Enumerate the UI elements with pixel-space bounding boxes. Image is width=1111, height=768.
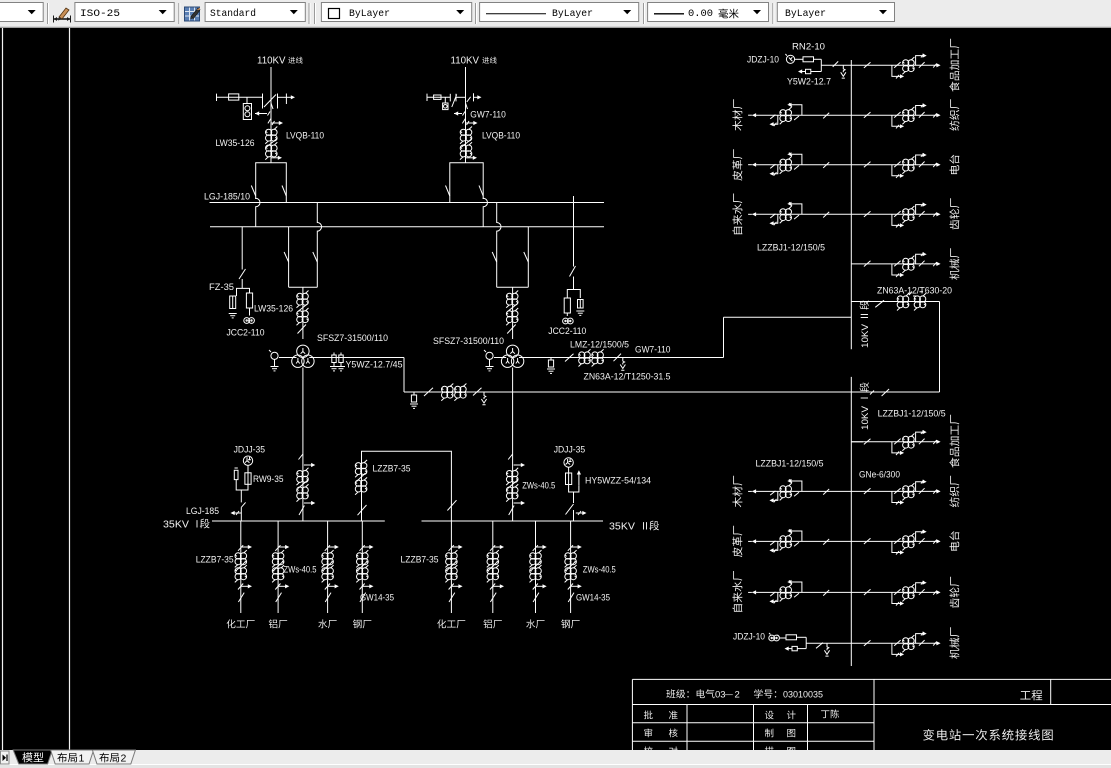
10kV feeder 纺织厂 (section I): breaker + CT <box>851 480 940 505</box>
title block table <box>632 678 1111 680</box>
svg-text:2: 2 <box>121 753 127 765</box>
35kV feeder 铝厂: breaker + CT LZZB7-35 <box>272 521 289 613</box>
disconnector line 1 <box>262 94 264 109</box>
10kV feeder 电台 (section I): breaker + CT <box>851 530 940 555</box>
svg-text:GW14-35: GW14-35 <box>360 593 394 603</box>
CT LVQB-110 line 2 <box>460 127 472 144</box>
feeder name labels upper right <box>949 81 959 91</box>
bus 110kV LGJ-185/10 W1 <box>210 202 605 204</box>
wire jumper leg line2 to bus W2 <box>483 198 487 227</box>
svg-text:ZWs-40.5: ZWs-40.5 <box>284 565 317 575</box>
10kV feeder 皮革厂 (section I): breaker + CT <box>748 529 851 553</box>
model/layout tab bar <box>0 750 1111 768</box>
wire jumper leg line1 to bus W2 <box>256 198 260 227</box>
svg-text:RN2-10: RN2-10 <box>792 42 825 52</box>
PT branch: PT JCC2-110 line 2 side + arrester + ground <box>573 196 575 267</box>
svg-text:ZN63A-12/T1250-31.5: ZN63A-12/T1250-31.5 <box>584 372 671 382</box>
wire to bus + disconnector + ground arrow <box>821 64 851 66</box>
disconnector bracket + CT, transformer T2 110kV side <box>497 203 501 288</box>
svg-text:03: 03 <box>715 690 726 701</box>
10kV feeder 木材厂 (section I): breaker + CT <box>748 479 851 503</box>
neutral arrester + ground T1 <box>279 357 297 359</box>
disconnector GW7-110 line 2 <box>449 94 451 102</box>
svg-text:ByLayer: ByLayer <box>552 8 593 20</box>
svg-text:HY5WZZ-54/134: HY5WZZ-54/134 <box>585 476 651 486</box>
35kV feeder name labels <box>227 619 236 628</box>
35kV feeder 钢厂 II: breaker + CT LZZB7-35 <box>565 521 582 613</box>
svg-text:LW35-126: LW35-126 <box>254 304 293 314</box>
svg-text:0.00: 0.00 <box>688 8 713 20</box>
application toolbar <box>0 0 1111 28</box>
10kV feeder 机械厂 (section I): breaker + CT <box>851 632 940 657</box>
35kV feeder 化工厂 II: breaker + CT LZZB7-35 <box>445 521 462 613</box>
bus 10KV II段 <box>850 60 852 349</box>
PT branch: fuse FZ-35 + LW35-126 + PT JCC2-110 <box>241 227 243 270</box>
CT LMZ-12/1500/5 <box>579 349 591 366</box>
bus 35KV I段 <box>212 520 385 522</box>
svg-text:LW35-126: LW35-126 <box>216 138 255 148</box>
bus 35KV II段 <box>422 520 604 522</box>
10kV feeder 齿轮厂: breaker + CT <box>851 203 940 228</box>
svg-text:ZWs-40.5: ZWs-40.5 <box>522 481 555 491</box>
10kV feeder 齿轮厂 (section I): breaker + CT <box>851 581 940 606</box>
svg-text:LZZBJ1-12/150/5: LZZBJ1-12/150/5 <box>756 459 824 469</box>
svg-text:JDZJ-10: JDZJ-10 <box>733 632 765 642</box>
wire 10kV feeder from T1 to bus 10KV I <box>404 391 851 393</box>
svg-text:110KV: 110KV <box>257 56 286 67</box>
35kV feeder 水厂 II: breaker + CT LZZB7-35 <box>530 521 547 613</box>
svg-text:ByLayer: ByLayer <box>349 8 390 20</box>
10kV feeder 纺织厂: breaker + CT <box>851 103 940 128</box>
10kV feeder 电台: breaker + CT <box>851 153 940 178</box>
35kV feeder 化工厂: breaker + CT LZZB7-35 <box>235 521 252 613</box>
wire T1 10kV branch <box>309 357 404 359</box>
svg-text:Y5WZ-12.7/45: Y5WZ-12.7/45 <box>346 360 403 370</box>
svg-text:SFSZ7-31500/110: SFSZ7-31500/110 <box>433 336 504 346</box>
svg-text:GW7-110: GW7-110 <box>635 345 671 355</box>
svg-text:GW7-110: GW7-110 <box>470 110 506 120</box>
svg-text:JCC2-110: JCC2-110 <box>548 326 586 336</box>
svg-text:1: 1 <box>79 753 85 765</box>
svg-text:ISO-25: ISO-25 <box>80 8 120 20</box>
svg-text:10KV: 10KV <box>860 323 871 348</box>
svg-text:110KV: 110KV <box>451 56 480 67</box>
neutral arrester + ground T2 <box>494 357 506 359</box>
svg-text:LZZB7-35: LZZB7-35 <box>196 555 234 565</box>
feeder name labels lower right <box>949 457 959 467</box>
35kV feeder 铝厂 II: breaker + CT LZZB7-35 <box>487 521 504 613</box>
10kV feeder 木材厂: breaker + CT LZZBJ1-12/150/5 <box>748 103 851 127</box>
svg-text:SFSZ7-31500/110: SFSZ7-31500/110 <box>317 333 388 343</box>
svg-text:35KV: 35KV <box>609 522 635 533</box>
CT pair on 10kV feeder ZN63A-12/T1250-31.5 <box>441 384 453 401</box>
transformer T1 SFSZ7-31500/110 <box>292 345 314 367</box>
35kV bus tie with CT LZZB7-35 <box>362 451 452 521</box>
feeder name labels lower left <box>732 497 742 507</box>
disconnector bracket + CT, transformer T1 110kV side <box>288 227 290 287</box>
svg-text:LZZB7-35: LZZB7-35 <box>373 464 411 474</box>
arrester + ground on 10kV feeder <box>413 392 415 395</box>
svg-text:JDZJ-10: JDZJ-10 <box>747 55 779 65</box>
svg-text:JDJJ-35: JDJJ-35 <box>234 445 266 455</box>
arrester + ground on T2 10kV branch <box>550 358 552 361</box>
10kV feeder 自来水厂: breaker + CT LZZBJ1-12/150/5 <box>748 202 851 226</box>
10kV feeder 机械厂: breaker + CT <box>851 252 940 277</box>
svg-text:LGJ-185/10: LGJ-185/10 <box>204 192 250 202</box>
svg-text:LMZ-12/1500/5: LMZ-12/1500/5 <box>570 340 629 350</box>
svg-text:2: 2 <box>735 690 740 701</box>
10kV feeder 食品加工厂 (section I): breaker + CT <box>851 430 940 455</box>
svg-text:GW14-35: GW14-35 <box>576 593 610 603</box>
svg-text:LZZB7-35: LZZB7-35 <box>401 555 439 565</box>
35kV feeder 水厂: breaker + CT LZZB7-35 <box>322 521 339 613</box>
svg-text:10KV: 10KV <box>860 405 871 430</box>
svg-text:RW9-35: RW9-35 <box>253 474 284 484</box>
wire incoming line 1 vertical <box>270 67 272 163</box>
35kV winding drops T1/T2 with CT ZWs-40.5 <box>302 368 304 522</box>
fuse + PT tap line 2 <box>426 94 428 101</box>
CT LVQB-110 line 1 <box>265 127 277 144</box>
feeder name labels upper left <box>732 121 742 131</box>
svg-text:GNe-6/300: GNe-6/300 <box>859 470 900 480</box>
svg-text:35KV: 35KV <box>163 520 189 531</box>
35kV feeder 钢厂: breaker + CT LZZB7-35 <box>356 521 373 613</box>
svg-text:ByLayer: ByLayer <box>785 8 826 20</box>
svg-text:Standard: Standard <box>210 8 256 20</box>
svg-text:Y5W2-12.7: Y5W2-12.7 <box>787 77 831 87</box>
10kV feeder 食品加工厂: breaker + CT <box>851 54 940 79</box>
svg-text:LGJ-185: LGJ-185 <box>186 506 219 516</box>
wire T2 10kV branch GW7-110 to bus 10KV II <box>519 357 724 359</box>
bus 10KV I段 <box>850 377 852 666</box>
svg-text:ZN63A-12/T630-20: ZN63A-12/T630-20 <box>877 286 952 296</box>
svg-text:LZZBJ1-12/150/5: LZZBJ1-12/150/5 <box>757 243 825 253</box>
bus 110kV LGJ-185/10 W2 <box>210 226 604 228</box>
transformer T2 SFSZ7-31500/110 <box>501 345 523 367</box>
svg-text:JCC2-110: JCC2-110 <box>227 328 265 338</box>
svg-text:ZWs-40.5: ZWs-40.5 <box>583 565 616 575</box>
disconnector + ground arrow, T2 branch <box>614 354 622 362</box>
10kV feeder 皮革厂: breaker + CT LZZBJ1-12/150/5 <box>748 152 851 176</box>
breaker LW35-126 line 1 <box>256 163 287 203</box>
10kV feeder 自来水厂 (section I): breaker + CT <box>748 580 851 604</box>
svg-text:LZZBJ1-12/150/5: LZZBJ1-12/150/5 <box>878 409 946 419</box>
svg-text:03010035: 03010035 <box>783 690 823 701</box>
svg-text:FZ-35: FZ-35 <box>209 282 234 292</box>
svg-text:JDJJ-35: JDJJ-35 <box>554 445 586 455</box>
arrester Y5WZ-12.7/45 + ground <box>334 353 341 356</box>
svg-text:LVQB-110: LVQB-110 <box>482 131 520 141</box>
svg-text:LVQB-110: LVQB-110 <box>286 131 324 141</box>
breaker line 2 <box>450 163 483 203</box>
fuse + PT tap line 1 <box>216 94 218 101</box>
